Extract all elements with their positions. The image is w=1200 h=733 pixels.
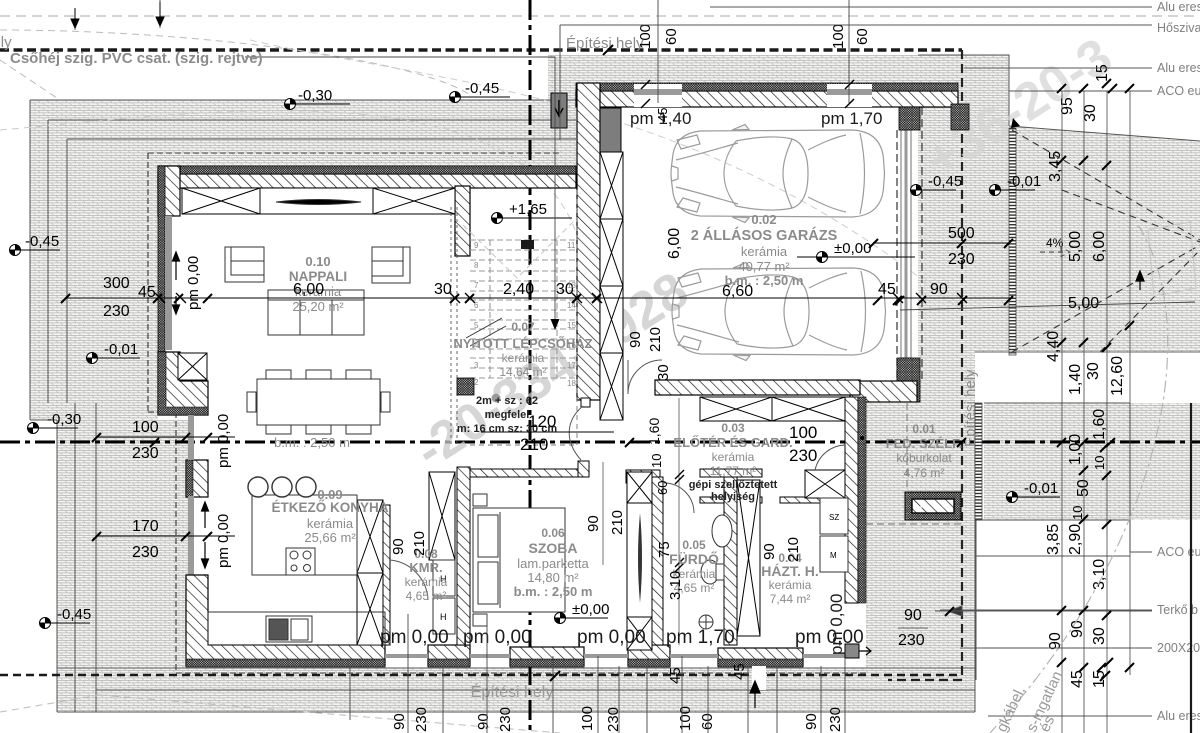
- svg-text:kerámia: kerámia: [307, 516, 354, 531]
- KMR shelf H boxes: [433, 560, 455, 596]
- bath toilet: [701, 560, 719, 584]
- wall bottom segment 4 (bath): [628, 645, 670, 666]
- svg-text:100: 100: [637, 24, 654, 49]
- nightstand bottom: [473, 614, 487, 626]
- svg-text:75: 75: [656, 541, 673, 558]
- terrain contour dashed bottom: [0, 695, 560, 733]
- insulation bottom segment 5: [718, 659, 803, 667]
- svg-text:100: 100: [789, 423, 817, 442]
- svg-text:90: 90: [904, 607, 922, 624]
- svg-text:18: 18: [567, 379, 576, 388]
- wall bottom segment 5 (hazt): [718, 648, 803, 666]
- svg-text:2,40: 2,40: [503, 281, 534, 298]
- svg-text:4,76 m²: 4,76 m²: [904, 466, 945, 480]
- szoba door jamb step: [578, 461, 589, 477]
- svg-text:60: 60: [663, 28, 680, 45]
- ticks right columns low: [945, 305, 1134, 672]
- svg-text:Alu eres: Alu eres: [1157, 61, 1200, 75]
- svg-text:230: 230: [948, 251, 975, 268]
- svg-text:b.m. : 2,50 m: b.m. : 2,50 m: [514, 584, 593, 599]
- insulation bottom segment 2: [428, 659, 470, 667]
- wall hazt north: [780, 497, 845, 503]
- stair break diagonals: [466, 318, 506, 346]
- svg-text:40,77 m²: 40,77 m²: [738, 259, 790, 274]
- svg-text:Hősziva: Hősziva: [1157, 21, 1200, 35]
- ticks right columns axis: [1057, 438, 1115, 529]
- car 1 garage top: [671, 125, 885, 223]
- svg-text:90: 90: [475, 713, 492, 730]
- svg-text:kőburkolat: kőburkolat: [896, 451, 952, 465]
- svg-text:200X20: 200X20: [1157, 641, 1200, 655]
- svg-text:-0,30: -0,30: [298, 87, 332, 104]
- svg-text:6: 6: [474, 301, 479, 310]
- svg-text:100: 100: [677, 706, 694, 731]
- ladder strip lower: [975, 403, 982, 520]
- wall venting room top: [700, 469, 762, 477]
- stove: [286, 548, 315, 575]
- svg-text:Építési hely: Építési hely: [471, 682, 554, 701]
- svg-text:lam.parketta: lam.parketta: [517, 556, 589, 571]
- svg-text:30: 30: [655, 364, 672, 381]
- ticks axis crossings: [150, 438, 966, 447]
- construction boundary heavy dashed bottom: [0, 674, 962, 677]
- dining chairs top: [266, 370, 291, 379]
- wall garage northeast corner block: [951, 104, 969, 130]
- pvc leader arrowhead: [551, 319, 560, 330]
- svg-text:90: 90: [1047, 632, 1064, 650]
- white notch top edge: [975, 351, 1200, 353]
- window gap garage north 1: [634, 84, 682, 107]
- gray diagonal utility line: [990, 225, 1168, 733]
- kitchen island: [252, 495, 357, 575]
- svg-text:230: 230: [827, 707, 844, 732]
- wall kitchen/KMR: [383, 505, 390, 645]
- ticks right columns top: [1057, 79, 1134, 93]
- svg-text:11: 11: [567, 241, 576, 250]
- white wedge above driveway slope: [1009, 108, 1200, 141]
- svg-text:210: 210: [785, 537, 802, 562]
- terrain left column: [30, 100, 158, 420]
- nightstand top: [473, 494, 487, 506]
- svg-text:15: 15: [1094, 64, 1111, 82]
- svg-text:90: 90: [1069, 620, 1086, 638]
- kitchen tall cabinet X-strip: [357, 500, 383, 645]
- svg-text:kerámia: kerámia: [741, 244, 788, 259]
- corner lintel X box: [178, 353, 207, 380]
- svg-text:3,10: 3,10: [1091, 559, 1108, 590]
- svg-text:1,40: 1,40: [1067, 364, 1084, 395]
- svg-text:pm 0,00: pm 0,00: [215, 514, 232, 568]
- window kitchen west 1: [188, 415, 194, 460]
- svg-text:0.05: 0.05: [682, 538, 706, 552]
- svg-text:30: 30: [1091, 627, 1108, 645]
- wall KMR/szoba: [457, 467, 470, 645]
- window glazing garage north 1: [634, 89, 682, 95]
- eaves dashed rectangle: [148, 153, 868, 673]
- living north lintel X box right: [373, 188, 455, 214]
- section axis vertical: [529, 0, 532, 733]
- terrain band above garage: [548, 55, 1009, 100]
- svg-text:Építési hely: Építési hely: [962, 369, 979, 447]
- svg-text:-0,45: -0,45: [928, 173, 962, 190]
- ticks garage right dim: [893, 296, 902, 305]
- svg-text:0.07: 0.07: [511, 320, 535, 334]
- ticks right columns mid: [1057, 156, 1134, 352]
- eaves dashed right segments: [897, 107, 922, 380]
- svg-text:90: 90: [391, 713, 408, 730]
- small up arrow driveway: [1136, 271, 1144, 290]
- svg-text:9: 9: [474, 241, 479, 250]
- svg-text:45: 45: [667, 667, 684, 684]
- ladder strip upper: [1009, 128, 1016, 355]
- wall top (living room north): [158, 174, 576, 188]
- kitchen sink: [266, 616, 312, 642]
- dining chairs ends: [247, 392, 256, 412]
- svg-text:0.10: 0.10: [305, 254, 330, 269]
- svg-text:pm 1,70: pm 1,70: [821, 109, 882, 128]
- dim line 170: [96, 535, 235, 537]
- vertical extension lines top: [658, 0, 849, 103]
- terrain column right of garage: [918, 83, 1009, 133]
- bath door arc: [664, 483, 694, 513]
- right columns vertical: [1062, 91, 1130, 733]
- svg-text:90: 90: [761, 543, 778, 560]
- svg-text:10: 10: [649, 454, 664, 468]
- svg-text:45: 45: [138, 284, 156, 301]
- svg-text:kerámia: kerámia: [769, 578, 812, 592]
- terrain left lower column: [57, 420, 190, 712]
- garage east glazing line: [905, 130, 908, 358]
- svg-text:pm 0,00: pm 0,00: [827, 594, 846, 655]
- svg-text:230: 230: [497, 707, 514, 732]
- 90/230 arrow right middle: [898, 606, 1152, 649]
- garage east corner stub bottom: [897, 358, 920, 402]
- svg-text:8: 8: [474, 261, 479, 270]
- svg-text:ACO eu: ACO eu: [1157, 84, 1200, 98]
- dim line 4%: [1040, 248, 1070, 257]
- svg-text:pm 0,00: pm 0,00: [380, 627, 449, 648]
- terrain edge line step3: [30, 139, 576, 712]
- svg-text:-0,01: -0,01: [104, 341, 138, 358]
- svg-text:0.01: 0.01: [912, 422, 936, 436]
- rain drain square: [845, 644, 859, 658]
- driveway slope edge: [1009, 126, 1200, 141]
- wall bottom segment 2 (KMR): [428, 645, 470, 666]
- garage east glazed door: [901, 130, 911, 358]
- terrain edge line step2: [48, 120, 576, 712]
- concrete pad hatched: [905, 492, 961, 520]
- window swing arrows left wall: [173, 252, 209, 568]
- insulation east lower: [858, 397, 866, 603]
- svg-text:170: 170: [132, 518, 159, 535]
- svg-text:kerámia: kerámia: [502, 351, 545, 365]
- svg-text:ELŐTÉR ÉS GARD.: ELŐTÉR ÉS GARD.: [673, 435, 792, 450]
- window kitchen west 2: [188, 496, 194, 575]
- wall stair/living: [455, 186, 470, 256]
- svg-text:17: 17: [567, 361, 576, 370]
- svg-text:100: 100: [132, 419, 159, 436]
- szoba closet column: [627, 472, 652, 650]
- svg-text:ely: ely: [0, 34, 12, 51]
- section axis horizontal: [0, 441, 1200, 444]
- svg-text:0.06: 0.06: [541, 526, 565, 540]
- svg-text:gépi szellőztetett: gépi szellőztetett: [689, 479, 778, 491]
- svg-text:14,80 m²: 14,80 m²: [527, 570, 579, 585]
- heatpump dark rect: [551, 93, 567, 128]
- svg-text:230: 230: [898, 632, 925, 649]
- svg-text:500: 500: [948, 225, 975, 242]
- svg-text:b.m. : 2,50 m: b.m. : 2,50 m: [274, 435, 350, 450]
- terrain bottom band: [57, 668, 975, 712]
- svg-text:45: 45: [878, 281, 896, 298]
- stair well dashed boundary: [451, 207, 457, 445]
- svg-text:5,00: 5,00: [1067, 231, 1084, 262]
- walkway entrance arrow bottom: [752, 666, 766, 690]
- car 2 garage bottom: [672, 263, 886, 361]
- svg-text:pm 0,00: pm 0,00: [215, 414, 232, 468]
- wall garage south / porch north: [850, 381, 917, 402]
- wall szoba north: [469, 469, 589, 477]
- svg-text:15: 15: [1091, 670, 1108, 688]
- corridor double ticks: [675, 470, 684, 572]
- dim line right slope 5,00: [900, 302, 1195, 310]
- wall kitchen southwest corner: [186, 575, 385, 666]
- hall entry arc: [815, 445, 845, 470]
- construction boundary heavy dashed right: [888, 50, 962, 680]
- door glazing bottom gaps: [385, 654, 845, 658]
- hall garage arc: [628, 360, 662, 394]
- property line top light dashed: [0, 15, 1200, 17]
- terrain contour dashed top-left: [0, 30, 470, 100]
- svg-text:pm 1,70: pm 1,70: [666, 627, 735, 648]
- driveway converging dashed lines: [1012, 130, 1200, 352]
- main dim line horizontal: [65, 297, 1010, 299]
- terrain big top-right field: [918, 110, 1200, 352]
- svg-text:15: 15: [567, 321, 576, 330]
- insulation bottom kitchen: [186, 659, 385, 667]
- svg-text:60: 60: [854, 28, 871, 45]
- insulation left corner: [158, 352, 208, 415]
- svg-text:6,60: 6,60: [722, 283, 753, 300]
- wall garage west (stair/garage): [577, 83, 600, 400]
- svg-text:4,40: 4,40: [1045, 331, 1062, 362]
- svg-text:megfelel: megfelel: [485, 409, 530, 421]
- hazt shaft X: [737, 480, 760, 636]
- wall garage north: [576, 91, 958, 107]
- terrain porch / right of house: [866, 403, 975, 712]
- KMR closet X: [429, 472, 455, 560]
- garage west X-strip: [600, 152, 623, 420]
- armchair right: [372, 247, 410, 283]
- hazt SZ box: [820, 498, 848, 534]
- stair bottom block: [457, 378, 474, 395]
- garage window ticks: [641, 80, 854, 108]
- dim ticks main: [155, 293, 967, 303]
- living north lintel X box left: [182, 188, 260, 214]
- stair landing line: [470, 190, 577, 445]
- svg-text:7,44 m²: 7,44 m²: [770, 592, 811, 606]
- walkway edges right: [976, 520, 1130, 680]
- svg-text:100: 100: [830, 24, 847, 49]
- svg-text:95: 95: [1059, 97, 1076, 115]
- dining table: [257, 379, 380, 425]
- svg-text:25,66 m²: 25,66 m²: [304, 530, 356, 545]
- svg-text:45: 45: [731, 663, 748, 680]
- svg-text:90: 90: [390, 538, 407, 555]
- svg-text:ACO eu: ACO eu: [1157, 545, 1200, 559]
- stair step numbers: [474, 241, 576, 388]
- leaders top left arrows: [75, 0, 160, 30]
- construction boundary heavy dashed top: [0, 48, 962, 52]
- svg-text:90: 90: [803, 713, 820, 730]
- dim line 100: [96, 436, 235, 438]
- sofa: [268, 290, 364, 335]
- svg-text:5,00: 5,00: [1068, 295, 1099, 312]
- svg-text:2 ÁLLÁSOS GARÁZS: 2 ÁLLÁSOS GARÁZS: [691, 227, 838, 244]
- svg-text:FÜRDŐ: FÜRDŐ: [669, 550, 719, 567]
- window gap garage north 2: [827, 84, 872, 107]
- wall bath north 2: [700, 497, 762, 503]
- svg-text:45: 45: [655, 108, 670, 122]
- terrain contour dashed curves: [0, 40, 960, 310]
- terrain right strip under field: [918, 352, 975, 712]
- svg-text:120: 120: [528, 412, 556, 431]
- svg-text:1,00: 1,00: [1067, 434, 1084, 465]
- insulation strip garage north: [576, 83, 958, 91]
- driveway right edge lines: [918, 55, 1009, 126]
- svg-text:30: 30: [434, 281, 452, 298]
- kitchen lamps circles: [248, 477, 268, 497]
- svg-text:3,10: 3,10: [667, 571, 684, 600]
- bath washbasin: [712, 515, 732, 547]
- svg-text:-0,01: -0,01: [1024, 480, 1058, 497]
- svg-text:300: 300: [103, 275, 130, 292]
- svg-text:210: 210: [647, 327, 664, 352]
- svg-text:90: 90: [627, 331, 644, 348]
- pvc label leader: [245, 57, 555, 322]
- svg-text:Alu eresz: Alu eresz: [1157, 0, 1200, 14]
- svg-text:pm 0,00: pm 0,00: [185, 256, 202, 310]
- kitchen bottom counter: [208, 612, 385, 645]
- ticks 500 line: [869, 239, 1013, 248]
- wall east lower (hazt east): [845, 397, 858, 603]
- svg-text:3: 3: [474, 361, 479, 370]
- ticks main line y298: [61, 294, 1013, 305]
- dim line 500: [873, 242, 1010, 244]
- terrain bottom inner line: [96, 689, 975, 691]
- porch roof dashed: [866, 403, 962, 524]
- svg-text:SZOBA: SZOBA: [529, 540, 578, 556]
- svg-text:2m + sz : 62: 2m + sz : 62: [476, 395, 538, 407]
- svg-text:5: 5: [474, 321, 479, 330]
- svg-text:-0,45: -0,45: [57, 606, 91, 623]
- living north shelf middle: [260, 188, 373, 214]
- svg-text:30: 30: [1085, 362, 1102, 380]
- svg-text:pm 0,00: pm 0,00: [577, 627, 646, 648]
- svg-text:-0,45: -0,45: [25, 233, 59, 250]
- svg-text:16: 16: [567, 341, 576, 350]
- szoba door arc: [569, 406, 583, 460]
- insulation left wall: [158, 166, 165, 415]
- bed foot line: [499, 512, 501, 608]
- svg-text:0.03: 0.03: [721, 421, 745, 435]
- svg-text:Alu eres: Alu eres: [1157, 709, 1200, 723]
- wall kitchen west pier: [186, 460, 208, 497]
- bed pillows: [478, 515, 498, 557]
- svg-text:60: 60: [655, 481, 670, 495]
- hazt M box: [820, 536, 848, 572]
- bed: [473, 508, 565, 612]
- svg-text:3,85: 3,85: [1045, 524, 1062, 555]
- svg-text:100: 100: [579, 706, 596, 731]
- svg-text:45: 45: [1069, 670, 1086, 688]
- wall hall north (garage/hall): [655, 380, 860, 395]
- svg-text:230: 230: [103, 303, 130, 320]
- corridor dim line: [678, 398, 680, 645]
- svg-text:230: 230: [132, 544, 159, 561]
- vertical extension lines bottom: [350, 614, 845, 733]
- faint parallelogram sketch: [1148, 222, 1196, 296]
- svg-text:6,00: 6,00: [293, 281, 324, 298]
- armchair left: [225, 247, 264, 282]
- szoba door jamb top: [581, 398, 590, 407]
- svg-text:±0,00: ±0,00: [572, 601, 609, 618]
- hall lintel X box 1: [700, 397, 772, 421]
- tv sideboard lens: [276, 200, 361, 205]
- wall bath/hazt: [724, 477, 737, 645]
- svg-text:-0,30: -0,30: [47, 411, 81, 428]
- svg-text:2: 2: [474, 378, 479, 387]
- stair newel dot: [492, 394, 501, 403]
- svg-text:1,60: 1,60: [646, 418, 662, 445]
- svg-text:0.02: 0.02: [751, 212, 776, 227]
- insulation strip top wall: [158, 166, 576, 174]
- svg-text:11,77 m²: 11,77 m²: [710, 464, 756, 478]
- svg-text:90: 90: [585, 515, 602, 532]
- wall bottom segment 3 (szoba): [510, 647, 584, 666]
- stair headroom V dashed: [463, 222, 573, 278]
- svg-text:210: 210: [609, 510, 626, 535]
- szoba door dim line: [602, 462, 604, 565]
- wall left corner L block: [158, 352, 208, 415]
- entry door hinge dot: [860, 436, 864, 440]
- svg-text:60: 60: [699, 713, 716, 730]
- hall south X box: [805, 470, 845, 498]
- svg-text:25,20 m²: 25,20 m²: [292, 299, 344, 314]
- chimney dark rect garage: [600, 108, 621, 152]
- wall left (living west) upper stub: [158, 166, 180, 216]
- svg-text:230: 230: [413, 707, 430, 732]
- svg-text:FED. SZÉLF.: FED. SZÉLF.: [886, 436, 963, 451]
- terrain top band: [30, 100, 576, 166]
- svg-text:1,60: 1,60: [1091, 409, 1108, 440]
- svg-text:230: 230: [132, 445, 159, 462]
- epitesi hely label top right corner lines: [559, 25, 561, 140]
- terrain edge line outer: [30, 100, 975, 712]
- svg-text:13: 13: [567, 281, 576, 290]
- svg-text:HÁZT. H.: HÁZT. H.: [761, 563, 819, 579]
- window glazing garage north 2: [827, 89, 872, 95]
- ticks left lines: [92, 433, 212, 541]
- top left leader arrows: [71, 2, 164, 28]
- svg-text:±0,00: ±0,00: [834, 240, 871, 257]
- svg-text:90: 90: [930, 281, 948, 298]
- svg-text:kerámia: kerámia: [712, 450, 755, 464]
- svg-text:-0,45: -0,45: [465, 80, 499, 97]
- terrain right lower field: [984, 403, 1200, 520]
- svg-text:10: 10: [1070, 506, 1085, 520]
- window living west: [165, 216, 172, 350]
